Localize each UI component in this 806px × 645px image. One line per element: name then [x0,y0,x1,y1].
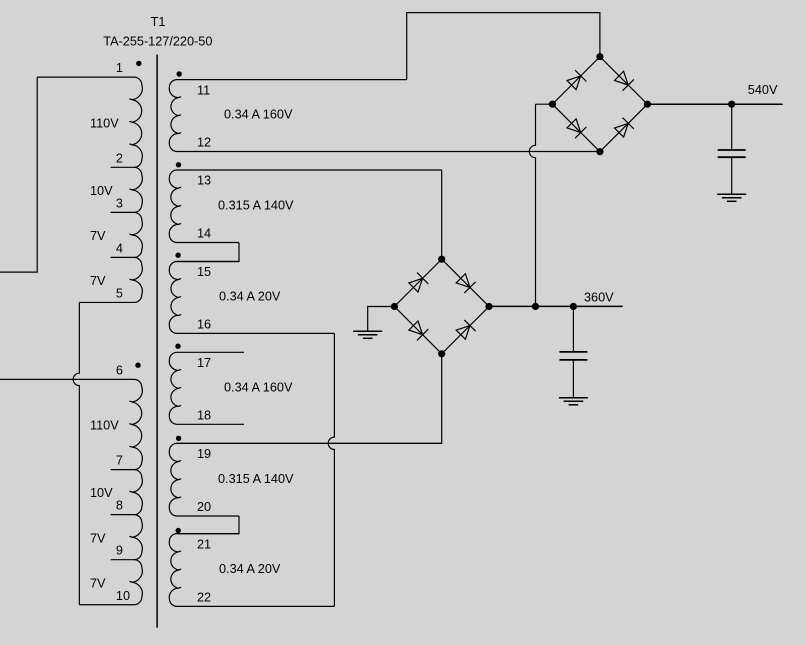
wire 540V rail [647,103,782,105]
wire pin11 to bridge B1 top [407,13,600,80]
wire 360V rail [489,305,623,307]
winding 7-8 10V [111,470,143,515]
winding 19-20 secondary [169,443,441,516]
polarity dot pin 17 [175,344,180,349]
diode B1 lower-right [615,123,629,137]
wire bridge B1 left to riser [536,103,553,105]
winding 4-5 7V [79,257,142,302]
svg-text:10V: 10V [90,184,113,198]
svg-text:3: 3 [116,196,123,210]
svg-text:1: 1 [116,61,123,75]
svg-text:12: 12 [197,136,211,150]
svg-text:14: 14 [197,227,211,241]
svg-text:7V: 7V [90,229,106,243]
svg-text:19: 19 [197,447,211,461]
capacitor C2 360V [572,306,574,351]
node dot B1 top [596,53,603,60]
svg-text:21: 21 [197,537,211,551]
diode B1 upper-left [567,76,581,90]
svg-text:7V: 7V [90,274,106,288]
svg-text:360V: 360V [584,290,614,304]
svg-text:13: 13 [197,174,211,188]
winding 9-10 7V [79,560,142,605]
wire pin13 to bridge B2 top [441,170,443,259]
svg-text:16: 16 [197,317,211,331]
wire riser down to 360V rail [529,104,535,306]
wire pin5 to pin10 [73,302,79,604]
winding 11-12 secondary [169,80,600,152]
svg-text:0.34 A 160V: 0.34 A 160V [224,108,293,122]
bridge B1 diamond [552,57,647,152]
node dot B2 left [391,303,398,310]
wire bridge B2 bottom to pin19 [177,354,442,444]
diode B2 upper-right [456,274,470,288]
diode B1 lower-left [567,119,581,133]
wire pin14 to pin15 [177,243,239,262]
winding 21-22 secondary [169,534,334,607]
svg-text:110V: 110V [90,419,119,433]
winding 15-16 secondary [169,262,334,334]
wire pin16 to pin22 [328,333,334,606]
node dot B2 right [485,303,492,310]
svg-text:540V: 540V [748,83,778,97]
winding 3-4 7V [111,212,143,257]
polarity dot pin 13 [176,162,181,167]
wire pin20 to pin21 [177,516,239,534]
svg-text:9: 9 [116,544,123,558]
winding 2-3 10V [111,167,143,212]
capacitor C1 540V [731,104,733,149]
svg-text:17: 17 [197,356,211,370]
node dot B1 bottom [596,148,603,155]
transformer T1 core [156,55,158,628]
node dot B1 left [549,101,556,108]
winding 6-7 110V [0,379,142,469]
polarity dot pin 6 [135,363,140,368]
svg-text:6: 6 [116,363,123,377]
polarity dot pin 19 [176,436,181,441]
node dot B2 bottom [438,350,445,357]
winding 1-2 110V [37,77,142,167]
svg-text:7: 7 [116,454,123,468]
svg-text:10V: 10V [90,486,113,500]
junction dot 360V rail at riser [532,303,539,310]
ground below C2 [559,397,588,399]
diode B1 upper-right [615,71,629,85]
wire bridge B2 left to ground [368,307,395,331]
junction dot 360V rail at capacitor [570,303,577,310]
winding 17-18 secondary [169,352,244,424]
svg-text:TA-255-127/220-50: TA-255-127/220-50 [103,35,212,49]
svg-text:7V: 7V [90,576,106,590]
bridge B2 diamond [394,259,489,354]
svg-text:4: 4 [116,241,123,255]
svg-text:5: 5 [116,287,123,301]
polarity dot pin 15 [175,253,180,258]
winding 13-14 secondary [169,170,441,243]
svg-text:15: 15 [197,265,211,279]
svg-text:18: 18 [197,408,211,422]
diode B2 upper-left [409,278,423,292]
svg-text:7V: 7V [90,531,106,545]
svg-text:0.315 A 140V: 0.315 A 140V [218,472,294,486]
junction dot 540V rail [728,101,735,108]
svg-text:8: 8 [116,499,123,513]
polarity dot pin 21 [176,528,181,533]
svg-text:11: 11 [197,83,210,97]
svg-text:2: 2 [116,151,123,165]
svg-text:110V: 110V [90,116,119,130]
wire pin1 to left edge [0,77,37,272]
diode B2 lower-right [456,326,470,340]
svg-text:10: 10 [116,589,130,603]
svg-text:20: 20 [197,500,211,514]
ground below C1 [717,193,746,195]
svg-text:0.34 A 20V: 0.34 A 20V [219,562,281,576]
winding 8-9 7V [111,515,143,560]
node dot B2 top [438,256,445,263]
svg-text:0.34 A 160V: 0.34 A 160V [224,381,293,395]
polarity dot pin 11 [177,71,182,76]
diode B2 lower-left [409,321,423,335]
svg-text:T1: T1 [151,15,166,29]
svg-text:0.315 A 140V: 0.315 A 140V [218,198,294,212]
svg-text:0.34 A 20V: 0.34 A 20V [219,290,281,304]
ground at bridge B2 left [353,330,382,332]
svg-text:22: 22 [197,590,211,604]
node dot B1 right [644,101,651,108]
polarity dot pin 1 [136,61,141,66]
